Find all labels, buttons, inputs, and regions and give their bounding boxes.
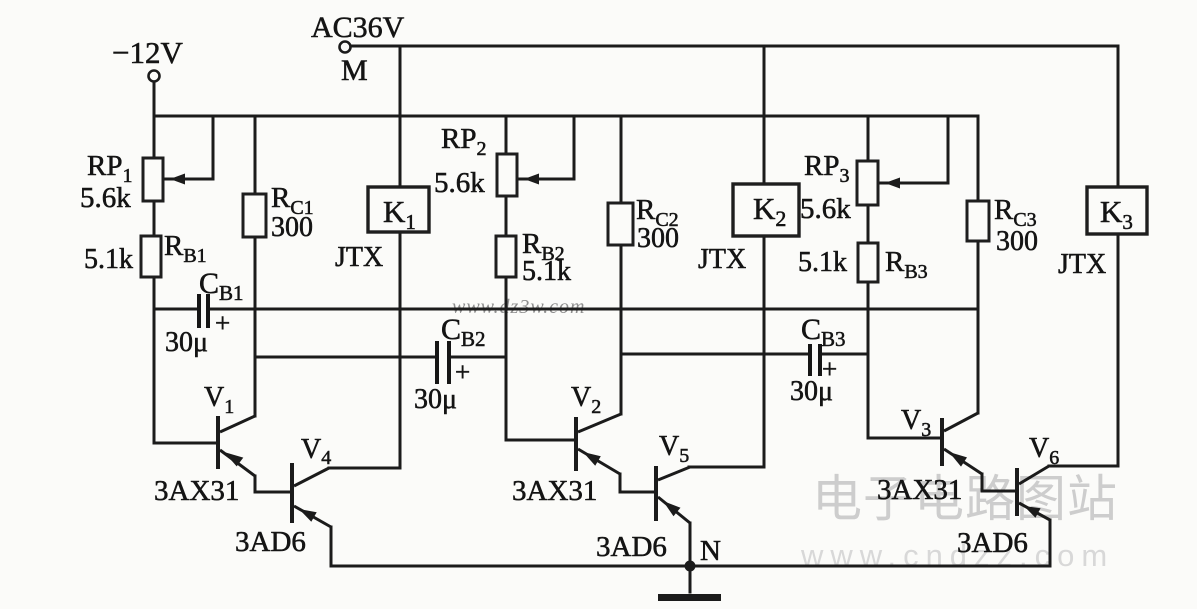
wire: V2 emitter to V5 base: [620, 474, 654, 492]
svg-text:AC36V: AC36V: [311, 11, 405, 44]
wire: K3 bottom to V6 collector: [1117, 234, 1120, 466]
transistor V1 (3AX31): [216, 416, 255, 476]
wire: V1 base lead: [154, 442, 216, 445]
svg-text:5.1k: 5.1k: [84, 244, 133, 275]
ground bar: [658, 594, 721, 601]
wire: coupling line CB2 right: [451, 356, 506, 359]
resistor RB1 body: [141, 236, 161, 277]
svg-text:30μ: 30μ: [414, 384, 457, 415]
wire: coupling line CB2 left: [255, 356, 435, 359]
wire: V5 emitter drop to node N: [689, 523, 692, 566]
wire: V5 collector to K2: [689, 466, 764, 469]
relay coil K1 box: [368, 187, 429, 232]
terminal: AC36V supply (node M): [340, 42, 351, 53]
svg-text:3AD6: 3AD6: [957, 527, 1028, 559]
svg-text:3AX31: 3AX31: [512, 475, 597, 507]
wire: RP3/RB3 branch drop: [867, 116, 870, 438]
capacitor CB2 plates: [437, 341, 449, 384]
wire: coupling line CB3 left: [621, 353, 808, 356]
wire: ground stub: [689, 566, 692, 592]
wire: coupling line CB3 right: [822, 353, 868, 356]
wire: K1 feed from AC bus: [399, 46, 402, 187]
svg-text:JTX: JTX: [335, 242, 383, 273]
wire: V6 collector to K3: [1049, 465, 1118, 468]
svg-text:300: 300: [637, 223, 679, 254]
RP3 wiper arrowhead: [885, 178, 900, 189]
svg-text:JTX: JTX: [1058, 249, 1106, 280]
svg-text:JTX: JTX: [698, 244, 746, 275]
svg-text:−12V: −12V: [112, 35, 183, 70]
svg-text:5.1k: 5.1k: [798, 247, 847, 278]
potentiometer RP3 body: [857, 161, 878, 205]
wire: V4 emitter drop: [330, 527, 333, 566]
potentiometer RP2 body: [497, 154, 517, 196]
svg-text:3AD6: 3AD6: [235, 526, 306, 558]
transistor V3 (3AX31): [940, 413, 982, 474]
wire: V6 emitter drop: [1049, 520, 1052, 566]
svg-text:www.dz3w.com: www.dz3w.com: [452, 296, 586, 318]
resistor RC1 body: [243, 194, 266, 237]
transistor V4 (3AD6): [290, 463, 331, 527]
transistor V2 (3AX31): [574, 414, 621, 474]
svg-text:5.6k: 5.6k: [434, 167, 485, 199]
svg-text:300: 300: [996, 226, 1038, 257]
wire: -12V bus rail: [154, 115, 978, 118]
wire: RC2 branch drop: [620, 116, 623, 414]
resistor RB3 body: [858, 243, 878, 282]
relay coil K3 box: [1087, 187, 1147, 234]
wire: RC3 feed drop: [977, 116, 980, 413]
svg-text:M: M: [341, 54, 368, 87]
wire: RP2 wiper tap: [517, 116, 574, 179]
RP1 wiper arrowhead: [170, 174, 185, 185]
transistor V6 (3AD6): [1015, 466, 1050, 520]
wire: K3 feed from AC bus: [1117, 46, 1120, 187]
wire: RP3 wiper tap: [878, 116, 948, 183]
wire: line A right (CB1 to RC3 drop): [210, 308, 978, 311]
wire: V4 collector to K1: [329, 467, 400, 470]
wire: RP2/RB2 branch drop: [505, 116, 508, 440]
wire: K2 bottom to V5 collector: [763, 236, 766, 467]
wire: K1 bottom to V4 collector: [399, 232, 402, 468]
capacitor CB3 plates: [810, 344, 820, 376]
resistor RC3 body: [967, 201, 989, 241]
resistor RC2 body: [608, 203, 633, 245]
svg-text:+: +: [215, 308, 230, 338]
wire: K2 feed from AC bus: [763, 46, 766, 184]
relay coil K2 box: [733, 184, 799, 236]
svg-text:3AX31: 3AX31: [877, 474, 962, 506]
wire: V1 emitter to V4 base: [255, 476, 290, 492]
wire: V3 emitter to V6 base: [982, 474, 1015, 491]
capacitor CB1 plates: [199, 294, 208, 328]
wire: AC36V top bus: [349, 45, 1118, 48]
svg-text:N: N: [700, 535, 721, 567]
svg-text:电子电路图站: 电子电路图站: [812, 471, 1118, 527]
wire: line A left (CB1 to -12V branch): [154, 308, 196, 311]
wire: V3 base lead: [868, 437, 940, 440]
svg-text:+: +: [455, 357, 470, 387]
svg-text:30μ: 30μ: [790, 376, 833, 407]
wire: bottom emitter bus: [331, 565, 1050, 568]
RP2 wiper arrowhead: [524, 174, 539, 185]
svg-text:5.1k: 5.1k: [522, 256, 571, 287]
wire: RC1 branch drop: [254, 116, 257, 416]
svg-text:5.6k: 5.6k: [80, 182, 131, 214]
transistor V5 (3AD6): [654, 466, 690, 523]
svg-text:3AD6: 3AD6: [596, 531, 667, 563]
junction node N dot: [685, 561, 696, 572]
svg-text:300: 300: [271, 212, 313, 243]
terminal: -12V supply: [149, 71, 160, 82]
svg-text:3AX31: 3AX31: [154, 475, 239, 507]
svg-text:5.6k: 5.6k: [800, 193, 851, 225]
wire: -12V feed vertical: [153, 82, 156, 443]
svg-text:30μ: 30μ: [165, 327, 208, 358]
wire: V2 base lead: [506, 439, 574, 442]
wire: RP1 wiper tap: [163, 116, 213, 179]
potentiometer RP1 body: [143, 158, 163, 201]
resistor RB2 body: [496, 236, 516, 277]
